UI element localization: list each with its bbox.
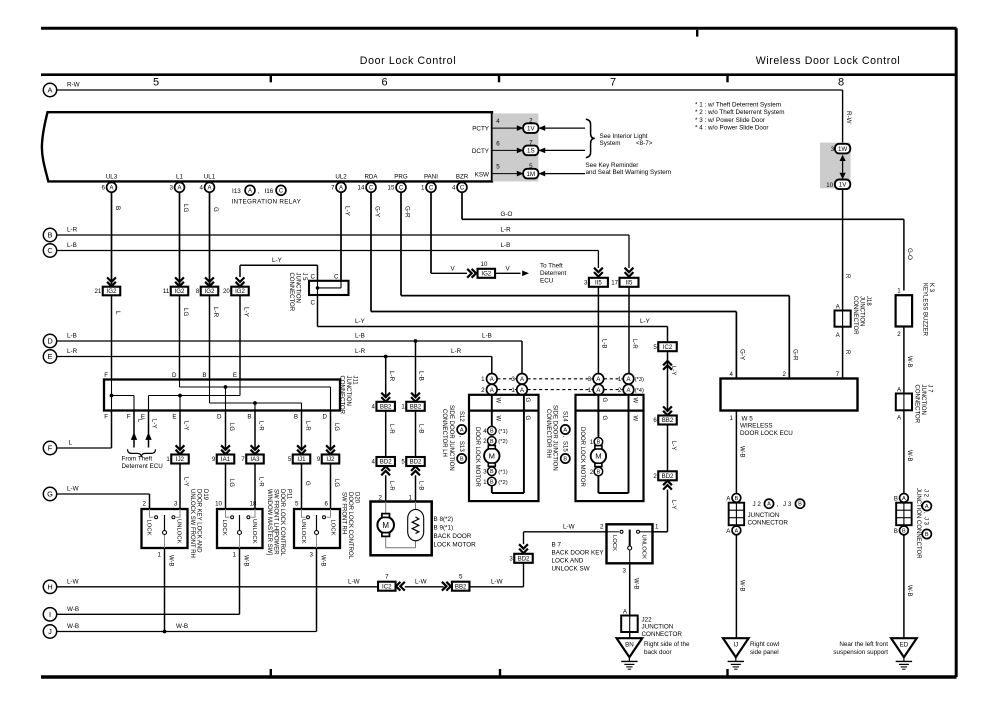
svg-text:20: 20: [223, 288, 230, 295]
connector II5 pin 17: [611, 278, 638, 287]
svg-text:J 3: J 3: [783, 501, 792, 508]
svg-text:Right cowl: Right cowl: [750, 641, 779, 648]
svg-text:2: 2: [600, 523, 604, 530]
svg-text:Door Lock Control: Door Lock Control: [360, 55, 456, 67]
J11 internal wiring E: [239, 380, 241, 396]
svg-text:7: 7: [385, 573, 389, 580]
wire W-B down to ED ground: [903, 535, 905, 638]
svg-text:System: System: [600, 140, 621, 147]
svg-text:LOCK AND: LOCK AND: [552, 557, 584, 564]
svg-text:G: G: [601, 416, 607, 421]
svg-text:G: G: [524, 416, 530, 421]
svg-text:C: C: [311, 299, 316, 306]
svg-text:B: B: [798, 502, 802, 508]
svg-text:A: A: [836, 332, 841, 339]
wire BZR down to G-O row: [461, 192, 463, 219]
wire L-Y IJ2#1 to D19 pin3: [179, 464, 181, 510]
svg-text:B: B: [490, 469, 494, 475]
svg-text:See Key Reminder: See Key Reminder: [586, 162, 639, 169]
svg-text:Near the left front: Near the left front: [839, 641, 888, 648]
svg-text:L-W: L-W: [348, 578, 360, 585]
svg-text:A: A: [339, 185, 343, 191]
LH motor circles: [488, 426, 497, 435]
svg-text:S15: S15: [561, 441, 567, 452]
svg-text:,: ,: [258, 188, 260, 195]
svg-text:18: 18: [250, 500, 257, 507]
svg-text:W-B: W-B: [176, 623, 188, 630]
arrows into BD2#2: [663, 481, 672, 490]
svg-text:A: A: [460, 428, 464, 434]
svg-text:1: 1: [158, 552, 162, 559]
arrows into IG2 pin 11: [175, 277, 184, 286]
RH col2 pin 1 circle A: [623, 374, 634, 385]
arrow into 1V: [840, 173, 846, 179]
svg-text:JUNCTION: JUNCTION: [642, 624, 674, 631]
arrows into IC2#5: [663, 361, 672, 370]
svg-text:B: B: [294, 413, 298, 420]
arrows into BB2#1: [411, 393, 420, 402]
connector BB2 pin 4: [372, 402, 395, 411]
svg-text:A: A: [109, 185, 113, 191]
svg-text:4: 4: [199, 185, 203, 192]
svg-text:A: A: [596, 377, 600, 383]
D19 pole wire down to row J: [164, 548, 166, 632]
svg-text:7: 7: [331, 185, 335, 192]
svg-text:J22: J22: [642, 616, 653, 623]
svg-text:UNLOCK: UNLOCK: [176, 519, 182, 544]
gray strip for 1W/1V connectors: [820, 143, 851, 189]
svg-text:,: ,: [777, 501, 779, 508]
svg-text:1: 1: [233, 552, 237, 559]
wire W-B down to IJ ground: [735, 535, 737, 638]
svg-text:1: 1: [618, 376, 622, 383]
svg-text:A: A: [48, 86, 53, 95]
junction connector J2/J3 grid (left): [729, 503, 745, 526]
svg-text:,: ,: [923, 512, 929, 514]
svg-text:6: 6: [325, 500, 329, 507]
connector BD2 pin 4: [372, 457, 395, 466]
svg-text:L-R: L-R: [355, 348, 366, 355]
svg-text:LG: LG: [333, 423, 339, 431]
LH col2 pin 1 circle A: [517, 384, 528, 395]
svg-text:A: A: [207, 185, 211, 191]
page bottom border: [41, 675, 957, 678]
svg-text:UNLOCK: UNLOCK: [640, 535, 646, 560]
svg-text:BACK DOOR KEY: BACK DOOR KEY: [552, 549, 605, 556]
svg-text:3: 3: [511, 376, 515, 383]
wire UL3 down to IG2: [111, 192, 113, 286]
row connector circle I: [43, 608, 56, 621]
wire UL1 down to IG2: [209, 192, 211, 286]
svg-text:PCTY: PCTY: [472, 125, 490, 132]
svg-text:L-Y: L-Y: [670, 441, 676, 450]
svg-text:L-R: L-R: [257, 421, 263, 431]
wire L-B BD2#5 to back door motor pin1: [415, 475, 417, 501]
row G wire L-W to D19 pin2: [57, 493, 150, 495]
svg-text:1: 1: [401, 404, 405, 411]
svg-text:IJ2: IJ2: [176, 456, 185, 463]
arrows into I15 #17: [625, 268, 634, 277]
svg-text:5: 5: [529, 163, 533, 170]
row connector circle C: [43, 244, 56, 257]
svg-text:1: 1: [588, 387, 592, 394]
connector box IG2 pin 10: [478, 269, 496, 278]
junction connector J22: [621, 616, 638, 633]
svg-text:DOOR LOCK MOTOR: DOOR LOCK MOTOR: [474, 427, 480, 488]
RH assembly divider: [576, 410, 644, 412]
svg-text:A: A: [726, 495, 731, 502]
ruler tick: [270, 76, 272, 82]
svg-text:2: 2: [897, 331, 901, 338]
svg-text:B: B: [48, 231, 53, 240]
page top border: [41, 27, 957, 30]
J11 internal wiring D: [179, 380, 181, 388]
svg-text:B: B: [490, 439, 494, 445]
svg-text:(*4): (*4): [635, 388, 644, 394]
svg-text:SIDE DOOR JUNCTION: SIDE DOOR JUNCTION: [552, 405, 558, 471]
P11 internals: [226, 509, 256, 548]
B7 pin3 wire down W-B: [629, 563, 631, 615]
svg-text:C: C: [369, 185, 374, 191]
connector box IJ2 pin 9: [317, 455, 339, 464]
LH motor bottom wire: [491, 486, 493, 493]
LH col2 pin 3 circle A: [517, 374, 528, 385]
ground ED: [891, 638, 917, 669]
wire L-R J11-B to IA3#7: [254, 411, 256, 450]
svg-text:JUNCTION: JUNCTION: [345, 376, 351, 406]
arrows into IG2 pin 21: [107, 277, 116, 286]
svg-text:A: A: [726, 528, 731, 535]
wireless door lock ECU W5 box: [721, 379, 858, 411]
row connector circle D: [43, 334, 56, 347]
junction connector J5: [309, 281, 349, 295]
arrows into BB2#4: [381, 393, 390, 402]
D19 internals: [150, 509, 181, 548]
bottom border tick: [270, 669, 272, 676]
svg-text:(*2): (*2): [498, 439, 507, 445]
svg-text:IA3: IA3: [250, 456, 260, 463]
svg-text:4: 4: [730, 371, 734, 378]
svg-text:L-R: L-R: [451, 348, 462, 355]
junction connector J2/J3 grid (right): [896, 503, 912, 526]
svg-text:A: A: [490, 377, 494, 383]
svg-text:Deterrent: Deterrent: [540, 270, 566, 277]
svg-text:I13: I13: [232, 188, 241, 195]
svg-text:S14: S14: [561, 411, 567, 422]
wire V to arrow: [495, 272, 521, 274]
connector 1M row: [492, 173, 517, 175]
svg-text:IG2: IG2: [107, 288, 117, 295]
svg-text:10: 10: [826, 182, 833, 189]
svg-text:A: A: [925, 504, 929, 510]
svg-text:IA1: IA1: [221, 456, 231, 463]
row D wire L-B to LH door col2: [57, 340, 522, 342]
svg-text:11: 11: [163, 288, 170, 295]
svg-text:5: 5: [401, 459, 405, 466]
svg-text:B 8(*2): B 8(*2): [434, 516, 454, 523]
J11 internal wiring F: [111, 380, 113, 411]
row I wire W-B to P11 pole: [57, 613, 240, 615]
junction connector J18: [835, 311, 851, 327]
svg-text:DOOR LOCK MOTOR: DOOR LOCK MOTOR: [579, 427, 585, 488]
svg-text:A: A: [248, 188, 252, 194]
svg-text:5: 5: [153, 77, 159, 89]
svg-text:2: 2: [481, 387, 485, 394]
junction connector J7: [896, 394, 912, 411]
svg-text:D19: D19: [202, 489, 208, 501]
LH col1 pin 2 circle A: [487, 384, 498, 395]
arrows into IJ2 pin 9: [326, 445, 335, 454]
svg-text:3: 3: [509, 556, 513, 563]
svg-text:UL1: UL1: [204, 174, 216, 181]
svg-text:RDA: RDA: [364, 174, 378, 181]
svg-text:BD2: BD2: [518, 556, 530, 563]
arrows into I15 #3: [594, 268, 603, 277]
arrows into IG2 #10: [467, 269, 476, 278]
svg-text:L1: L1: [176, 174, 183, 181]
wire R J18 to ECU pin 7: [842, 327, 844, 379]
svg-text:L-B: L-B: [418, 424, 424, 433]
svg-text:LOCK: LOCK: [221, 520, 227, 536]
LH assembly divider: [469, 410, 539, 412]
svg-text:A: A: [177, 185, 181, 191]
svg-text:BB2: BB2: [662, 417, 674, 424]
svg-text:4: 4: [372, 404, 376, 411]
svg-text:C: C: [399, 185, 404, 191]
RH col2 pin 2 circle A: [623, 384, 634, 395]
row connector circle A: [43, 83, 56, 96]
arrows into BD2#5: [411, 466, 420, 475]
gray connector strip at relay right: [493, 113, 539, 181]
wire UL2 down to J5: [340, 192, 342, 281]
svg-text:E: E: [48, 352, 53, 361]
svg-text:B: B: [202, 372, 206, 379]
row E wire L-R to LH door col1: [57, 356, 492, 358]
svg-text:3: 3: [584, 280, 588, 287]
svg-text:6: 6: [653, 417, 657, 424]
svg-text:15: 15: [388, 185, 395, 192]
svg-text:17: 17: [611, 280, 618, 287]
svg-text:DOOR LOCK CONTROL: DOOR LOCK CONTROL: [279, 489, 285, 557]
svg-text:G-R: G-R: [792, 349, 799, 361]
svg-text:L-R: L-R: [212, 307, 219, 318]
wire from J11 F to row F circle: [111, 411, 113, 449]
svg-text:F: F: [48, 444, 53, 453]
svg-text:1: 1: [730, 415, 734, 422]
svg-text:L-B: L-B: [355, 333, 365, 340]
svg-text:C: C: [311, 273, 316, 280]
svg-text:2: 2: [143, 500, 147, 507]
connector IC2 pin 5: [653, 342, 676, 351]
arrows into BD2#3: [519, 544, 528, 553]
connector circle B (J2): [732, 494, 741, 503]
RH col1 pin 3 circle A: [593, 374, 604, 385]
svg-text:L: L: [114, 311, 121, 315]
svg-text:B: B: [735, 496, 739, 502]
wire L-Y IC2#5 to BB2#6: [667, 351, 669, 411]
svg-text:G: G: [47, 490, 53, 499]
svg-text:1S: 1S: [527, 148, 535, 155]
svg-text:CONNECTOR RH: CONNECTOR RH: [545, 409, 551, 458]
dashed connector option lines: [497, 378, 516, 380]
svg-text:INTEGRATION RELAY: INTEGRATION RELAY: [232, 198, 302, 205]
svg-text:M: M: [595, 452, 601, 461]
svg-text:BD2: BD2: [410, 459, 422, 466]
svg-text:F: F: [127, 413, 131, 420]
svg-text:W: W: [631, 416, 637, 422]
svg-text:1: 1: [897, 288, 901, 295]
svg-text:10: 10: [215, 500, 222, 507]
RH motor bottom wire: [597, 476, 599, 493]
connector box IG2 pin 8: [196, 287, 218, 296]
svg-text:LG: LG: [182, 308, 189, 317]
svg-text:C: C: [460, 185, 465, 191]
svg-text:W-B: W-B: [906, 356, 912, 368]
connector circle A (right J2): [900, 494, 909, 503]
connector circle A (J2): [732, 526, 741, 535]
wire RDA down, right to ECU pin4: [370, 192, 372, 311]
RH door lock motor assembly box: [576, 395, 644, 501]
svg-text:M: M: [382, 521, 389, 530]
svg-text:* 4 : w/o Power Slide Door: * 4 : w/o Power Slide Door: [695, 124, 769, 131]
svg-text:C: C: [429, 185, 434, 191]
svg-text:D20: D20: [353, 492, 359, 504]
svg-text:B: B: [247, 413, 251, 420]
svg-text:(*1): (*1): [498, 470, 507, 476]
svg-text:CONNECTOR: CONNECTOR: [748, 519, 789, 526]
connector BD2 pin 5: [401, 457, 424, 466]
integration relay I13/I16 outline (wavy left break edge): [42, 112, 492, 181]
svg-text:L-R: L-R: [304, 421, 310, 431]
svg-text:JUNCTION: JUNCTION: [294, 273, 300, 303]
wire W-B J7 down: [903, 410, 905, 493]
svg-text:M: M: [489, 452, 495, 461]
svg-text:L-B: L-B: [601, 339, 607, 348]
row connector circle E: [43, 350, 56, 363]
svg-text:CONNECTOR: CONNECTOR: [642, 631, 683, 638]
wire LG J11-D to IJ2#9: [330, 411, 332, 450]
P11 pole wire down to row I: [239, 548, 241, 614]
row B wire L-R to I15 #17: [57, 234, 629, 236]
wire G IJ1#5 to D20 pin5: [301, 464, 303, 510]
connector II5 pin 3: [584, 278, 608, 287]
svg-text:G: G: [601, 398, 607, 403]
svg-text:1: 1: [421, 185, 425, 192]
svg-text:LG: LG: [228, 479, 234, 487]
svg-text:ECU: ECU: [540, 277, 554, 284]
svg-text:* 2 : w/o Theft Deterrent Sys: * 2 : w/o Theft Deterrent System: [695, 109, 784, 116]
svg-text:H: H: [47, 582, 52, 591]
RH G wire: [597, 395, 599, 438]
svg-text:G: G: [524, 398, 530, 403]
svg-text:A: A: [490, 388, 494, 394]
junction connector J11 box: [104, 380, 340, 411]
svg-text:A: A: [902, 496, 906, 502]
wire L1 down to IG2: [179, 192, 181, 286]
svg-text:To Theft: To Theft: [540, 262, 563, 269]
wire L-R below IG2#8 to J11 B: [209, 295, 211, 379]
connector BB2 pin 1: [401, 402, 424, 411]
svg-text:5: 5: [653, 344, 657, 351]
svg-text:I: I: [49, 610, 51, 619]
svg-text:4: 4: [496, 118, 500, 125]
LH door lock motor assembly box: [469, 395, 539, 501]
svg-text:W-B: W-B: [67, 606, 79, 613]
svg-text:9: 9: [212, 456, 216, 463]
svg-text:SIDE DOOR JUNCTION: SIDE DOOR JUNCTION: [448, 405, 454, 471]
svg-text:back door: back door: [644, 649, 672, 656]
D20 pole wire down to row J: [316, 548, 318, 632]
svg-text:F: F: [104, 413, 108, 420]
svg-text:W-B: W-B: [67, 623, 79, 630]
svg-text:E: E: [233, 372, 237, 379]
connector box IG2 pin 11: [163, 287, 188, 296]
svg-text:IJ: IJ: [733, 641, 738, 648]
arrows into IG2 pin 20: [236, 277, 245, 286]
svg-text:D: D: [172, 372, 177, 379]
svg-text:LOCK MOTOR: LOCK MOTOR: [434, 541, 477, 548]
arrow to theft deterrent ECU: [522, 271, 529, 277]
underbrace From Theft Deterrent ECU: [128, 449, 156, 457]
page right border: [955, 28, 958, 677]
back door motor M: [377, 517, 394, 534]
arrows into BB2#6: [663, 406, 672, 415]
LH col1 pin 1 circle A: [487, 374, 498, 385]
svg-text:IJ2: IJ2: [326, 456, 335, 463]
svg-text:L-R: L-R: [257, 477, 263, 487]
svg-text:J: J: [48, 627, 52, 636]
junction dot row D: [414, 339, 418, 343]
svg-text:W-B: W-B: [906, 585, 912, 597]
arrows into IA3 pin 7: [251, 445, 260, 454]
svg-text:A: A: [623, 608, 628, 615]
wire L-R IA3#7 to P11 pin18: [254, 464, 256, 510]
svg-text:1: 1: [511, 387, 515, 394]
svg-text:L: L: [69, 440, 73, 447]
svg-text:Deterrent ECU: Deterrent ECU: [122, 463, 164, 470]
svg-text:L-W: L-W: [415, 578, 427, 585]
svg-text:DCTY: DCTY: [472, 148, 490, 155]
svg-text:1W: 1W: [838, 146, 847, 153]
svg-text:F: F: [104, 372, 108, 379]
svg-text:BB2: BB2: [455, 583, 467, 590]
svg-text:suspension support: suspension support: [833, 649, 888, 656]
ground IJ: [723, 638, 749, 669]
svg-text:L: L: [136, 419, 142, 423]
svg-text:BACK DOOR: BACK DOOR: [434, 533, 472, 540]
svg-text:1: 1: [655, 523, 659, 530]
svg-text:Right side of the: Right side of the: [644, 641, 690, 648]
svg-text:BD2: BD2: [380, 459, 392, 466]
svg-text:II5: II5: [595, 280, 602, 287]
arrows into BB2#5: [442, 582, 451, 591]
RH motor circles: [594, 438, 603, 447]
svg-text:II5: II5: [626, 280, 633, 287]
svg-text:L-B: L-B: [67, 242, 77, 249]
svg-text:W-B: W-B: [906, 450, 912, 462]
junction dot row J / D19: [163, 630, 167, 634]
svg-text:D: D: [323, 413, 328, 420]
switch B7 BACK DOOR KEY LOCK AND UNLOCK SW: [607, 524, 653, 563]
svg-text:(*2): (*2): [498, 480, 507, 486]
ECU pin1 wire W-B down: [735, 411, 737, 494]
svg-text:LOCK: LOCK: [145, 520, 151, 536]
svg-text:J18: J18: [865, 296, 871, 306]
svg-text:DOOR LOCK CONTROL: DOOR LOCK CONTROL: [347, 492, 353, 560]
wire L-Y below IG2#20 to J11 E: [239, 295, 241, 379]
svg-text:2: 2: [783, 371, 787, 378]
svg-text:L-Y: L-Y: [182, 477, 188, 486]
